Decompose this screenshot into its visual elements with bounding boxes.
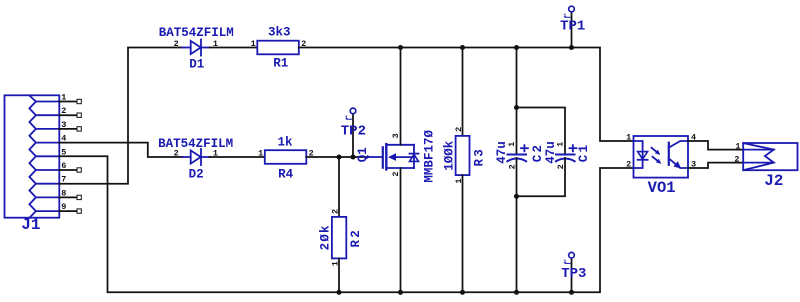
J1 pin 9 stub and square (59, 209, 81, 213)
svg-text:BAT54ZFILM: BAT54ZFILM (158, 137, 233, 151)
svg-text:Q1: Q1 (356, 147, 370, 162)
TP2 pin 1 tiny number (345, 114, 352, 121)
wire C1 bottom branch (517, 158, 566, 196)
wire VO1 pin4 to J2 pin1 (688, 141, 743, 150)
svg-text:1: 1 (251, 39, 256, 49)
junction node C2 top (514, 45, 519, 50)
svg-text:TP2: TP2 (341, 123, 366, 139)
svg-text:R4: R4 (278, 167, 294, 181)
junction node Q1 source bottom (398, 290, 403, 295)
wire J1 pin4 to D2 (59, 143, 182, 157)
svg-text:R3: R3 (472, 147, 486, 166)
svg-text:2Øk: 2Øk (318, 224, 332, 250)
body diode triangle (410, 154, 419, 161)
svg-text:8: 8 (61, 188, 66, 198)
svg-text:2: 2 (174, 148, 179, 158)
svg-text:2: 2 (61, 106, 66, 116)
diode D2 (183, 149, 210, 165)
junction node C2 bottom (514, 290, 519, 295)
svg-text:TP3: TP3 (561, 266, 586, 282)
junction node TP2 (350, 154, 355, 159)
svg-text:J2: J2 (764, 172, 783, 190)
wire C2 bottom (516, 158, 518, 292)
svg-text:9: 9 (61, 202, 66, 212)
junction node C1 bottom branch (514, 194, 519, 199)
svg-text:R2: R2 (349, 228, 363, 247)
connector J1 body (5, 95, 60, 217)
gate bar (382, 146, 384, 169)
svg-text:1: 1 (555, 142, 565, 147)
wire Q1 drain up to top rail (400, 48, 402, 145)
junction node R3 bottom (460, 290, 465, 295)
C2 plus mark (521, 145, 528, 151)
svg-text:1: 1 (735, 141, 740, 151)
svg-text:BAT54ZFILM: BAT54ZFILM (159, 26, 234, 40)
svg-text:2: 2 (331, 209, 341, 214)
drain connection (386, 144, 414, 146)
resistor R3 (456, 136, 470, 175)
test point TP2 (350, 108, 356, 157)
svg-text:1k: 1k (277, 136, 293, 150)
diode D1 (183, 40, 210, 56)
wire R4 to Q1 gate (306, 156, 368, 158)
svg-text:1ØØk: 1ØØk (442, 140, 456, 171)
wire C2 branch top (516, 48, 518, 155)
capacitor C1 (555, 155, 576, 162)
svg-text:2: 2 (391, 171, 401, 176)
svg-text:D2: D2 (189, 167, 204, 181)
wire R2 bottom to rail (338, 258, 340, 292)
top rail wire R1 to VO1 (299, 48, 634, 142)
internal LED (634, 141, 643, 168)
connector J2 body (743, 143, 797, 170)
junction node TP3 bottom (569, 290, 574, 295)
J1 pin 3 stub and square (59, 127, 81, 131)
test point TP1 (569, 6, 575, 47)
wire J1 pin7 to D1 vertical (59, 48, 182, 184)
svg-text:MMBF17Ø: MMBF17Ø (423, 130, 437, 183)
wire Q1 source down to rail (400, 168, 402, 292)
J1 pin 1 stub and square (59, 99, 81, 103)
svg-text:C2: C2 (531, 143, 545, 162)
svg-text:VO1: VO1 (648, 179, 676, 197)
body diode cathode bar (410, 153, 419, 155)
svg-text:3: 3 (61, 120, 66, 130)
TP1 pin 1 tiny number (563, 12, 570, 19)
light arrows (652, 148, 659, 154)
substrate line with arrow (392, 156, 414, 158)
wire R3 bottom to rail (462, 175, 464, 292)
TP3 pin 1 tiny number (563, 258, 570, 265)
wire C1 top branch (517, 108, 566, 155)
wire VO1 pin3 to J2 pin2 (688, 163, 743, 168)
svg-text:D1: D1 (189, 58, 204, 72)
gate lead (369, 156, 382, 158)
resistor R4 (265, 150, 307, 164)
svg-text:1: 1 (258, 148, 263, 158)
svg-text:2: 2 (734, 155, 739, 165)
svg-text:J1: J1 (21, 216, 40, 234)
J1 pin 8 stub and square (59, 195, 81, 199)
resistor R2 (332, 217, 346, 259)
wire D1 to R1 (210, 47, 257, 49)
junction node Q1 drain top (398, 45, 403, 50)
svg-text:1: 1 (507, 142, 517, 147)
junction node R2 bottom (336, 290, 341, 295)
svg-text:2: 2 (626, 160, 631, 170)
channel bar (385, 143, 387, 171)
svg-text:3: 3 (391, 133, 401, 138)
source connection (386, 167, 414, 169)
wire J1 pin5 to ground rail (59, 156, 633, 292)
body diode line (413, 145, 415, 168)
wire D2 to R4 (210, 156, 265, 158)
junction node TP1 (569, 45, 574, 50)
svg-text:R1: R1 (273, 57, 288, 71)
J1 pin numbers (61, 93, 66, 213)
svg-text:3k3: 3k3 (268, 26, 291, 40)
wire R3 top branch (462, 48, 464, 136)
junction node C1 top branch (514, 105, 519, 110)
svg-text:2: 2 (454, 127, 464, 132)
junction node R3 top (460, 45, 465, 50)
svg-text:C1: C1 (577, 143, 591, 162)
optocoupler VO1 (634, 136, 689, 178)
J1 pin 6 stub and square (59, 168, 81, 172)
C1 plus mark (570, 145, 577, 151)
transistor Q1 MMBF170 (369, 143, 419, 171)
phototransistor (668, 142, 670, 166)
svg-text:1: 1 (61, 93, 66, 103)
svg-text:2: 2 (174, 39, 179, 49)
junction node R2 top (336, 154, 341, 159)
svg-text:1: 1 (626, 133, 631, 143)
svg-text:TP1: TP1 (560, 19, 585, 35)
J1 pin 2 stub and square (59, 113, 81, 117)
test point TP3 (569, 252, 575, 292)
svg-text:6: 6 (61, 161, 66, 171)
capacitor C2 (507, 155, 528, 162)
resistor R1 (257, 41, 299, 55)
wire R2 top branch (338, 157, 340, 217)
